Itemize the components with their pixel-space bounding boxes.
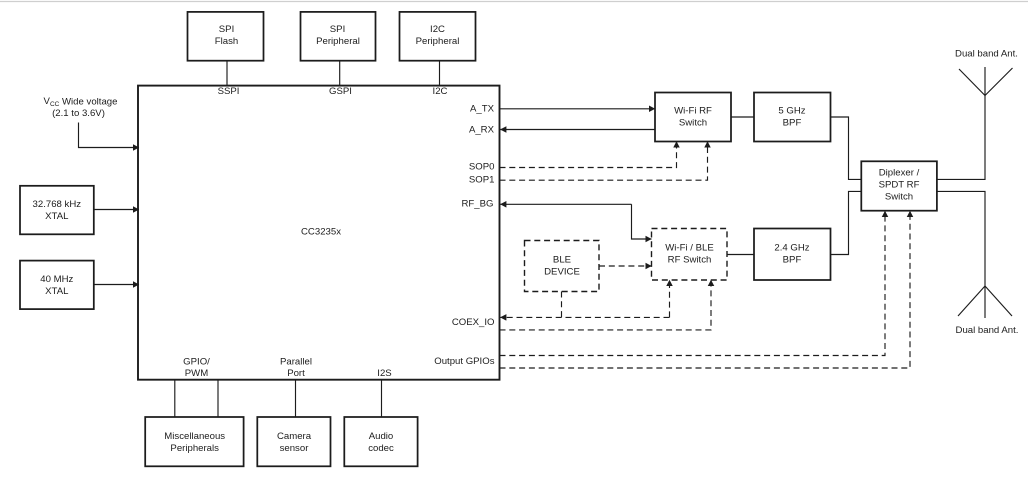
antenna top — [959, 67, 1013, 96]
svg-text:SPDT RF: SPDT RF — [879, 179, 920, 190]
wire BLE DEVICE to Wi-Fi/BLE RF Switch (dashed) — [599, 265, 652, 267]
antenna bottom — [958, 286, 1012, 318]
wire SPI Flash to SSPI — [226, 61, 228, 86]
svg-text:Wi-Fi RF: Wi-Fi RF — [674, 106, 712, 117]
block 40 MHz XTAL — [20, 261, 94, 310]
svg-text:Switch: Switch — [679, 118, 707, 129]
wire RF_BG to Wi-Fi/BLE RF Switch — [632, 204, 652, 239]
wire Output GPIO 2 to Diplexer (dashed) — [500, 211, 911, 368]
wire GPIO/PWM to Miscellaneous Peripherals (left) — [174, 380, 176, 417]
pin GPIO/PWM — [183, 357, 210, 380]
wire SOP0 to Wi-Fi RF Switch (dashed) — [500, 142, 677, 168]
page top rule — [0, 1, 1028, 3]
wire Wi-Fi RF Switch to A_RX — [500, 129, 655, 131]
svg-text:XTAL: XTAL — [45, 286, 69, 297]
wire A_TX to Wi-Fi RF Switch — [500, 108, 656, 110]
wire 32.768 kHz XTAL to CC3235x — [94, 209, 140, 211]
svg-text:GSPI: GSPI — [329, 86, 352, 97]
wire Output GPIO 1 to Diplexer (dashed) — [500, 211, 886, 356]
svg-text:Parallel: Parallel — [280, 357, 312, 368]
svg-text:SSPI: SSPI — [218, 86, 240, 97]
wire COEX_IO branch up to Wi-Fi/BLE RF Switch (dashed) — [669, 280, 671, 317]
block 5 GHz BPF — [754, 93, 831, 142]
block 2.4 GHz BPF — [754, 229, 831, 281]
block Miscellaneous Peripherals — [145, 417, 243, 466]
svg-text:I2C: I2C — [433, 86, 448, 97]
svg-text:SOP1: SOP1 — [469, 175, 495, 186]
wire 2.4 GHz BPF to Diplexer — [831, 191, 862, 254]
svg-text:Miscellaneous: Miscellaneous — [164, 431, 225, 442]
wire COEX return to Wi-Fi/BLE RF Switch (dashed) — [500, 280, 712, 330]
svg-text:BLE: BLE — [553, 255, 571, 266]
svg-text:Wi-Fi / BLE: Wi-Fi / BLE — [665, 243, 714, 254]
wire 5 GHz BPF to Diplexer — [831, 117, 862, 179]
svg-text:CC3235x: CC3235x — [301, 227, 341, 238]
block SPI Flash — [188, 12, 264, 61]
wire 40 MHz XTAL to CC3235x — [94, 284, 140, 286]
svg-text:Dual band Ant.: Dual band Ant. — [956, 325, 1019, 336]
wire I2C Peripheral to I2C — [439, 61, 441, 86]
wire BLE DEVICE drop to COEX_IO (dashed) — [561, 292, 563, 318]
svg-text:Port: Port — [287, 368, 305, 379]
svg-text:SPI: SPI — [330, 24, 345, 35]
svg-text:I2S: I2S — [377, 368, 391, 379]
block SPI Peripheral — [301, 12, 376, 61]
wire COEX_IO into CC3235x (dashed) — [500, 316, 669, 318]
label VCC Wide voltage — [44, 96, 118, 119]
svg-text:DEVICE: DEVICE — [544, 267, 580, 278]
wire Diplexer to top antenna — [937, 96, 985, 180]
block Audio codec — [344, 417, 417, 466]
svg-text:(2.1 to 3.6V): (2.1 to 3.6V) — [52, 108, 105, 119]
svg-text:32.768 kHz: 32.768 kHz — [33, 199, 82, 210]
svg-text:codec: codec — [368, 443, 394, 454]
wire VCC supply — [79, 123, 140, 148]
svg-text:SPI: SPI — [219, 24, 234, 35]
svg-text:Output GPIOs: Output GPIOs — [434, 356, 494, 367]
wire Wi-Fi RF Switch to 5 GHz BPF — [731, 116, 754, 118]
svg-text:I2C: I2C — [430, 24, 445, 35]
svg-text:Dual band Ant.: Dual band Ant. — [955, 49, 1018, 60]
svg-text:PWM: PWM — [185, 368, 208, 379]
svg-text:5 GHz: 5 GHz — [778, 106, 805, 117]
wire SOP1 to Wi-Fi RF Switch (dashed) — [500, 142, 708, 181]
svg-text:Switch: Switch — [885, 191, 913, 202]
block Wi-Fi RF Switch — [655, 93, 731, 142]
svg-text:BPF: BPF — [783, 118, 802, 129]
block I2C Peripheral — [400, 12, 476, 61]
wire Wi-Fi/BLE RF Switch to 2.4 GHz BPF — [727, 254, 754, 256]
wire Diplexer to bottom antenna — [937, 191, 985, 286]
wire SPI Peripheral to GSPI — [339, 61, 341, 86]
block Diplexer / SPDT RF Switch — [861, 161, 937, 210]
svg-text:SOP0: SOP0 — [469, 162, 495, 173]
svg-text:Flash: Flash — [215, 36, 238, 47]
svg-text:BPF: BPF — [783, 255, 802, 266]
svg-text:A_TX: A_TX — [470, 104, 495, 115]
wire GPIO/PWM to Miscellaneous Peripherals (right) — [217, 380, 219, 417]
block Camera sensor — [257, 417, 330, 466]
block 32.768 kHz XTAL — [20, 186, 94, 235]
svg-text:GPIO/: GPIO/ — [183, 357, 210, 368]
svg-text:Camera: Camera — [277, 431, 312, 442]
svg-text:sensor: sensor — [280, 443, 310, 454]
svg-text:XTAL: XTAL — [45, 211, 69, 222]
svg-text:COEX_IO: COEX_IO — [452, 317, 495, 328]
block CC3235x main box — [138, 86, 500, 380]
pin Parallel Port — [280, 357, 312, 380]
wire I2S to Audio codec — [381, 380, 383, 417]
block BLE DEVICE (dashed) — [525, 241, 600, 292]
svg-text:Diplexer /: Diplexer / — [879, 167, 920, 178]
svg-text:RF Switch: RF Switch — [668, 255, 712, 266]
svg-text:Audio: Audio — [369, 431, 394, 442]
svg-text:2.4 GHz: 2.4 GHz — [774, 243, 809, 254]
svg-text:Peripheral: Peripheral — [416, 36, 460, 47]
wire Parallel Port to Camera sensor — [295, 380, 297, 417]
svg-text:40 MHz: 40 MHz — [40, 274, 73, 285]
block Wi-Fi / BLE RF Switch (dashed) — [652, 229, 728, 281]
svg-text:VCC Wide voltage: VCC Wide voltage — [44, 96, 118, 107]
svg-text:A_RX: A_RX — [469, 125, 495, 136]
svg-text:Peripherals: Peripherals — [170, 443, 219, 454]
wire RF_BG from junction into CC3235x — [500, 203, 631, 205]
svg-text:Peripheral: Peripheral — [316, 36, 360, 47]
svg-text:RF_BG: RF_BG — [462, 199, 494, 210]
